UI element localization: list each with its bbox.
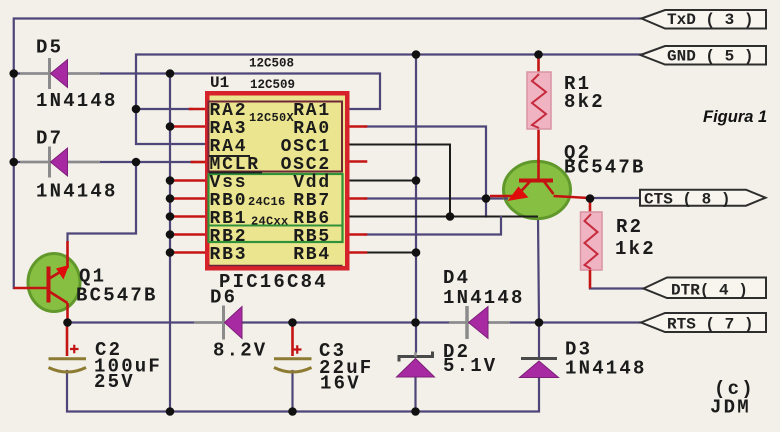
label D4	[443, 267, 525, 309]
diode D3	[520, 359, 559, 378]
svg-text:Vss: Vss	[210, 173, 248, 193]
svg-text:D7: D7	[36, 128, 63, 150]
pin stub RB1	[171, 215, 205, 218]
svg-text:GND ( 5 ): GND ( 5 )	[667, 48, 753, 66]
svg-text:RA4: RA4	[210, 137, 248, 157]
pin stub RB2	[171, 233, 205, 236]
wire vertical rail x416	[415, 55, 417, 353]
wire RA2	[136, 108, 192, 110]
svg-text:1N4148: 1N4148	[36, 90, 118, 112]
svg-text:DTR( 4 ): DTR( 4 )	[671, 282, 748, 300]
diode D2 zener 5.1V	[397, 352, 435, 378]
label Q1	[76, 266, 158, 307]
wire D2 bottom lead	[414, 377, 416, 412]
IC U1 lower green sub-box	[209, 174, 343, 266]
svg-text:12C508: 12C508	[249, 57, 294, 71]
wire TxD net top	[14, 19, 642, 289]
label Q2	[564, 142, 646, 179]
wire D7 MCLR row	[14, 161, 192, 163]
label C3	[319, 340, 373, 395]
label R1	[564, 73, 605, 113]
wire D3 top lead	[538, 323, 540, 359]
wire RB4	[365, 252, 416, 254]
label D2	[443, 341, 497, 377]
connector GND (5)	[641, 46, 767, 66]
diode D6 zener 8.2V	[194, 306, 242, 340]
label D7	[36, 128, 118, 203]
pin stub RB5	[350, 233, 366, 236]
svg-text:Vdd: Vdd	[293, 173, 331, 193]
svg-text:RA1: RA1	[293, 101, 331, 121]
svg-text:8.2V: 8.2V	[213, 340, 267, 362]
svg-text:Figura 1: Figura 1	[703, 108, 767, 126]
svg-text:24C16: 24C16	[248, 195, 286, 209]
svg-text:24Cxx: 24Cxx	[251, 215, 289, 229]
wire bottom rail	[67, 371, 539, 412]
svg-text:12C50X: 12C50X	[249, 111, 295, 125]
svg-text:1k2: 1k2	[615, 238, 656, 260]
svg-text:OSC2: OSC2	[281, 155, 331, 175]
svg-text:RB2: RB2	[210, 227, 248, 247]
svg-text:8k2: 8k2	[564, 91, 605, 113]
pin stub RA3	[171, 125, 205, 128]
wire Q2 emitter column to RTS	[538, 217, 539, 323]
svg-text:RA3: RA3	[210, 119, 248, 139]
label C2	[94, 339, 162, 393]
svg-text:RB0: RB0	[210, 191, 248, 211]
pin label RA4	[209, 137, 250, 157]
wire RB7 to Q2	[365, 197, 507, 199]
wire C3 bottom lead	[291, 371, 293, 412]
transistor Q1	[14, 241, 80, 323]
svg-text:12C509: 12C509	[250, 78, 295, 92]
svg-text:RB4: RB4	[293, 245, 331, 265]
transistor Q2	[490, 129, 589, 219]
svg-text:U1: U1	[210, 74, 229, 92]
diode D5	[20, 58, 100, 89]
IC U1 PIC16C84 body	[205, 91, 350, 271]
connector DTR (4)	[644, 278, 767, 300]
wire RA0 drop	[365, 127, 486, 217]
wire CTS net	[591, 197, 640, 199]
wire OSC1 drop	[350, 145, 450, 217]
pin stub RB4	[350, 251, 366, 254]
IC U1 upper sub-box	[209, 102, 343, 172]
pin stub Vss	[171, 179, 205, 182]
svg-text:RB7: RB7	[293, 191, 331, 211]
pin stub RB0	[171, 197, 205, 200]
connector TxD (3)	[642, 10, 767, 29]
label D5	[36, 37, 118, 113]
label R2	[615, 216, 656, 260]
wire GND net top rail	[136, 55, 642, 145]
svg-text:RA0: RA0	[293, 119, 331, 139]
svg-text:R2: R2	[616, 216, 643, 238]
svg-text:1N4148: 1N4148	[36, 181, 118, 203]
pin stub RA2	[190, 108, 205, 111]
svg-text:CTS ( 8 ): CTS ( 8 )	[644, 191, 730, 209]
label D6	[210, 287, 267, 362]
svg-text:RB5: RB5	[293, 227, 331, 247]
pin stub OSC2	[348, 160, 366, 163]
svg-text:RA2: RA2	[210, 101, 248, 121]
svg-text:RTS ( 7 ): RTS ( 7 )	[667, 316, 753, 334]
wire Vdd	[350, 180, 416, 182]
label copyright JDM	[710, 378, 755, 419]
capacitor C3	[274, 324, 312, 372]
wire D7 to Q1 collector	[68, 162, 137, 241]
svg-text:RB3: RB3	[210, 245, 248, 265]
svg-text:1N4148: 1N4148	[443, 287, 525, 309]
svg-text:RB6: RB6	[293, 209, 331, 229]
svg-text:OSC1: OSC1	[281, 137, 331, 157]
pin stub MCLR	[192, 161, 205, 164]
diode D4	[449, 306, 510, 339]
wire RTS row	[68, 321, 642, 323]
svg-text:JDM: JDM	[710, 397, 751, 419]
svg-text:RB1: RB1	[210, 209, 248, 229]
svg-text:D6: D6	[210, 287, 237, 309]
connector RTS (7)	[641, 313, 766, 334]
svg-text:1N4148: 1N4148	[565, 358, 647, 380]
wire ground rail x170	[169, 74, 171, 412]
svg-text:BC547B: BC547B	[564, 157, 646, 179]
diode D7	[20, 147, 100, 178]
wire RB5 jog	[365, 217, 501, 235]
svg-text:D5: D5	[36, 37, 63, 59]
resistor R1	[527, 56, 551, 129]
pin stub RB3	[171, 251, 205, 254]
pin label MCLR	[209, 155, 262, 175]
svg-text:TxD ( 3 ): TxD ( 3 )	[667, 11, 753, 29]
svg-text:25V: 25V	[94, 371, 135, 393]
wire D5 row	[14, 72, 170, 74]
pin stub RA0	[350, 125, 366, 128]
svg-text:5.1V: 5.1V	[443, 355, 497, 377]
capacitor C2	[49, 324, 87, 372]
svg-text:BC547B: BC547B	[76, 285, 158, 307]
connector CTS (8)	[640, 190, 766, 209]
svg-text:16V: 16V	[320, 373, 361, 395]
pin stub RB7	[350, 197, 366, 200]
wire RA1 loop	[170, 74, 380, 110]
label D3	[565, 339, 647, 380]
resistor R2	[581, 200, 603, 289]
wire DTR net	[590, 287, 643, 289]
svg-text:D4: D4	[443, 267, 470, 289]
wire RB6 row	[350, 216, 538, 218]
